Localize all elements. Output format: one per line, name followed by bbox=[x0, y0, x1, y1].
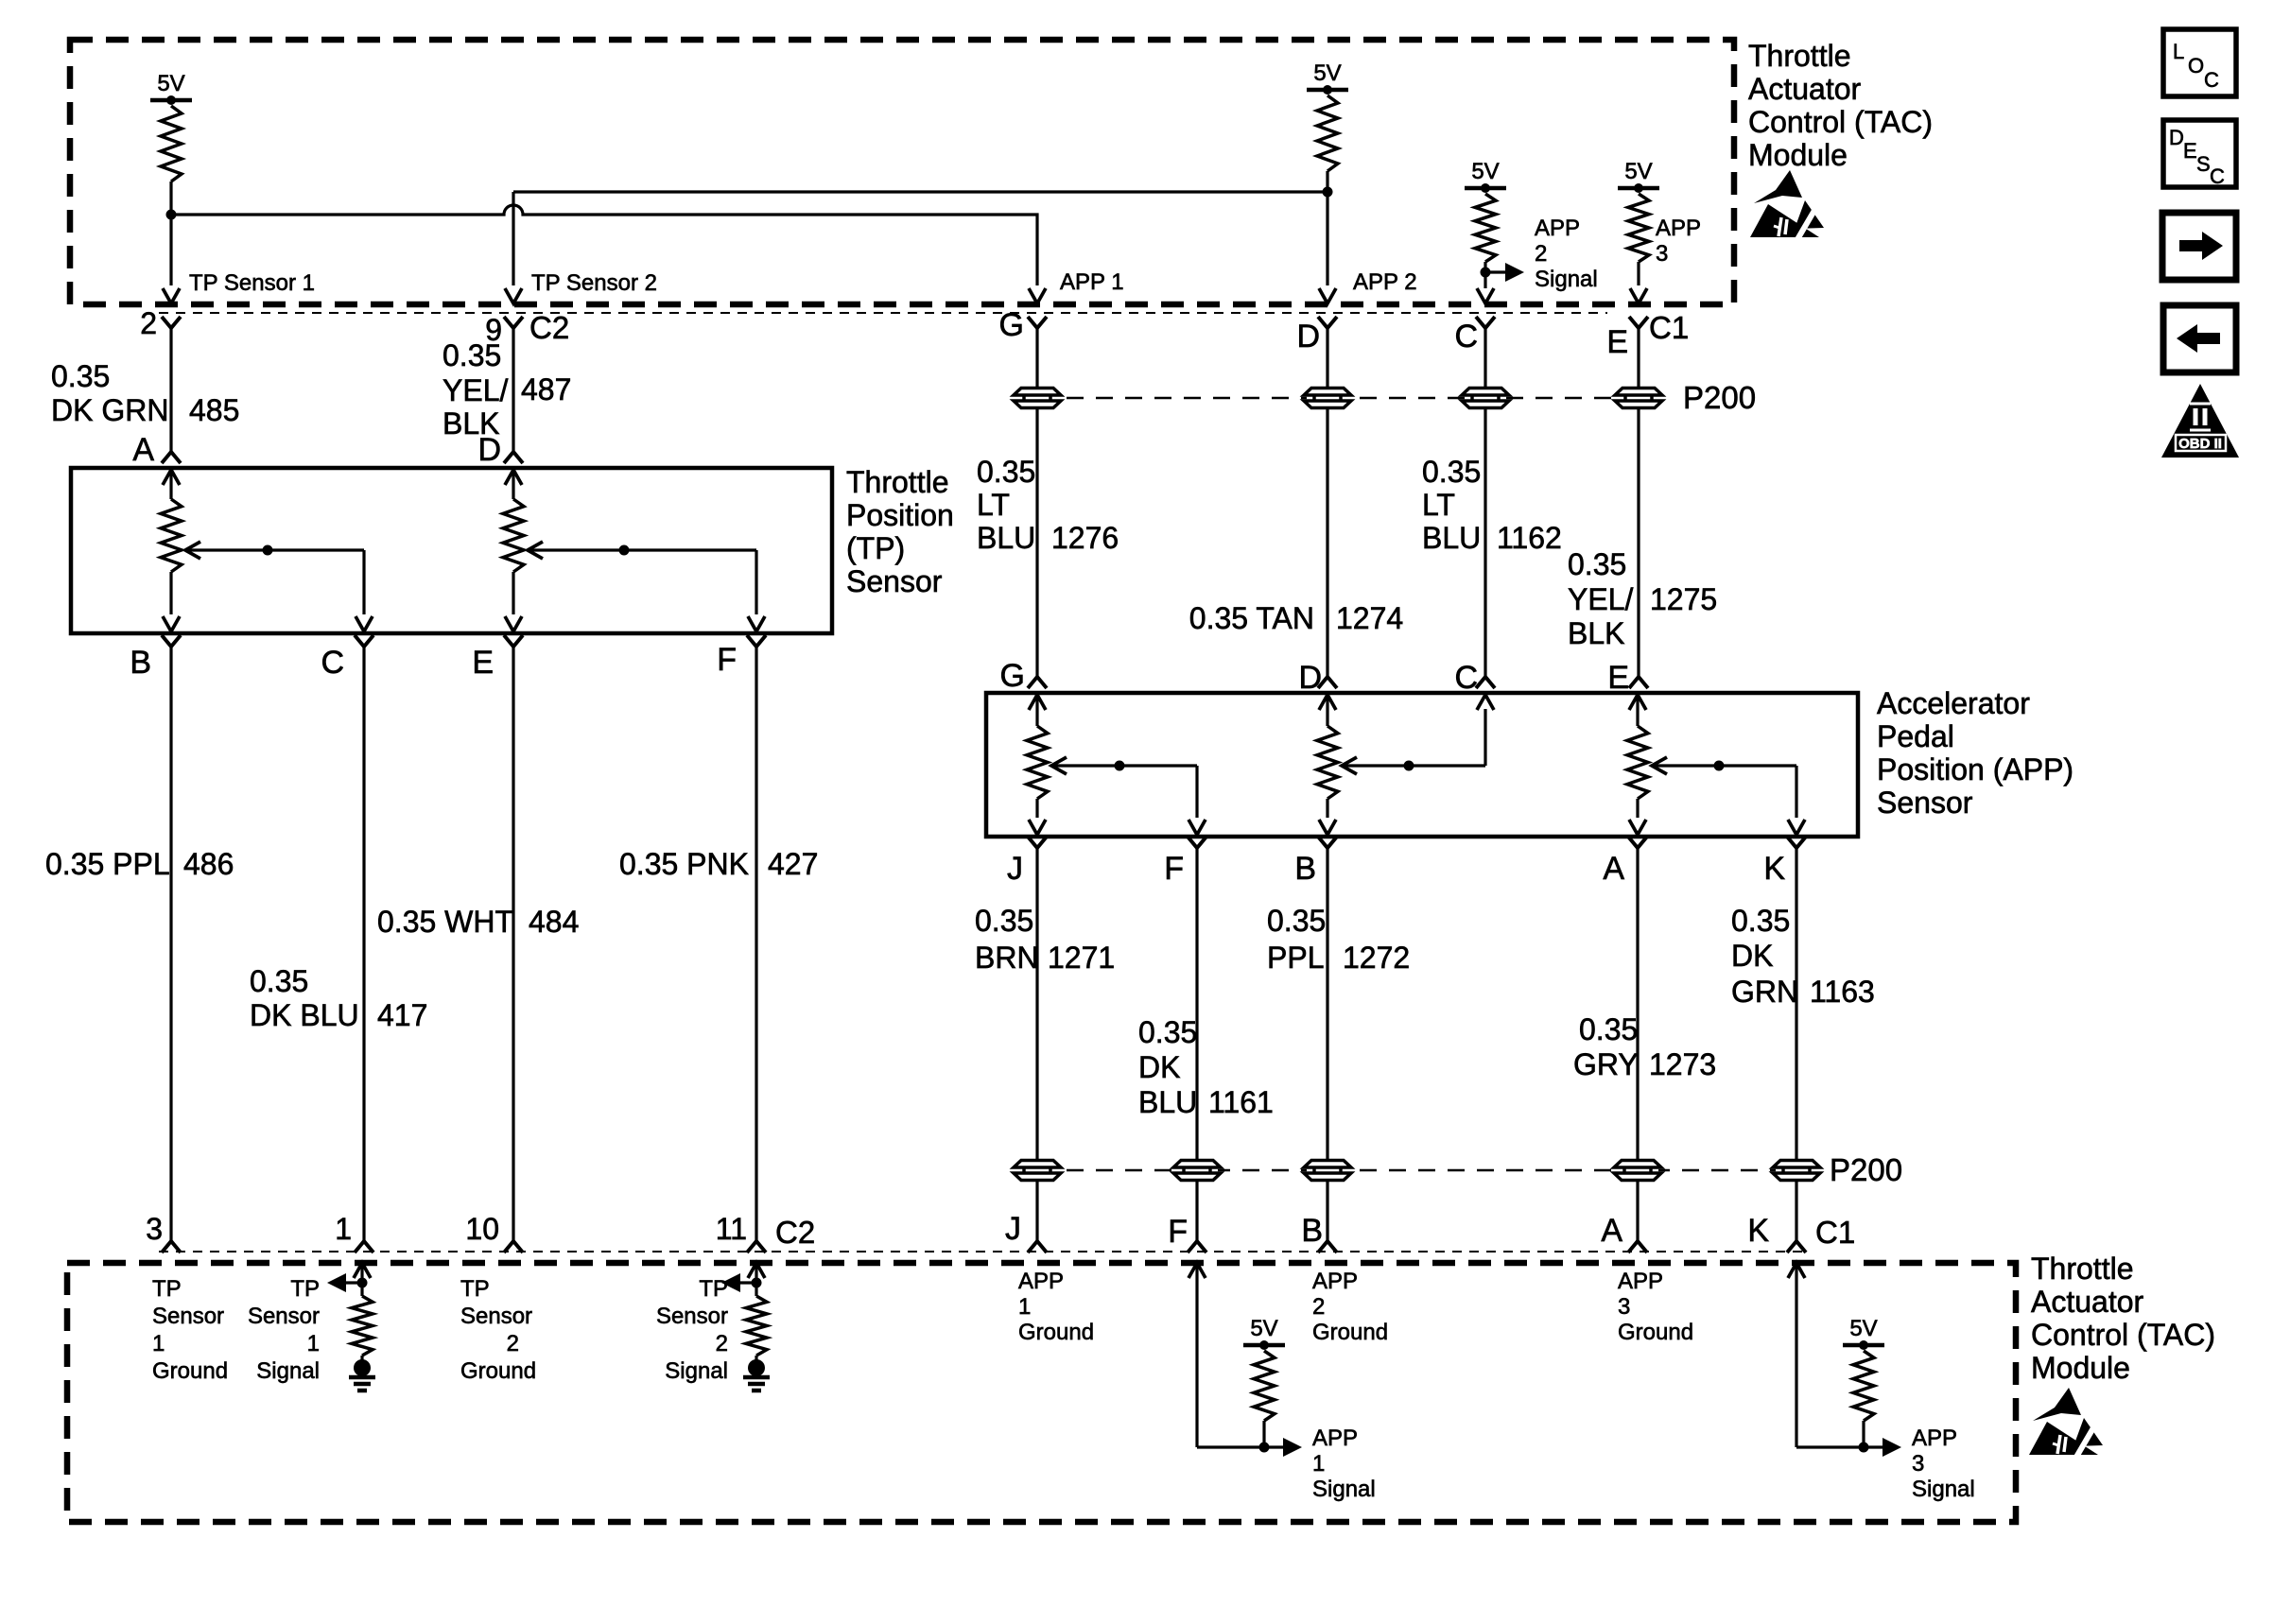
svg-text:2: 2 bbox=[716, 1331, 728, 1356]
svg-text:F: F bbox=[1164, 851, 1184, 887]
svg-text:5V: 5V bbox=[157, 71, 184, 96]
svg-text:3: 3 bbox=[146, 1212, 163, 1246]
svg-text:Ground: Ground bbox=[1312, 1320, 1388, 1345]
svg-text:Throttle: Throttle bbox=[846, 465, 948, 499]
svg-text:K: K bbox=[1763, 851, 1785, 887]
svg-text:DK: DK bbox=[1731, 939, 1773, 973]
svg-text:BLK: BLK bbox=[1568, 616, 1624, 650]
svg-text:11: 11 bbox=[716, 1212, 747, 1246]
svg-text:1272: 1272 bbox=[1343, 941, 1410, 975]
svg-text:0.35: 0.35 bbox=[250, 964, 308, 998]
svg-text:C1: C1 bbox=[1815, 1215, 1855, 1250]
svg-text:2: 2 bbox=[507, 1331, 519, 1356]
svg-text:1: 1 bbox=[307, 1331, 320, 1356]
svg-text:Sensor: Sensor bbox=[1877, 786, 1973, 820]
svg-text:0.35: 0.35 bbox=[1422, 455, 1481, 489]
svg-text:0.35 PNK: 0.35 PNK bbox=[619, 847, 749, 881]
svg-text:PPL: PPL bbox=[1267, 941, 1324, 975]
svg-text:Actuator: Actuator bbox=[2031, 1285, 2144, 1319]
svg-text:0.35 WHT: 0.35 WHT bbox=[377, 905, 513, 939]
svg-text:GRN: GRN bbox=[1731, 975, 1798, 1009]
svg-text:Accelerator: Accelerator bbox=[1877, 686, 2030, 720]
svg-text:1: 1 bbox=[1312, 1451, 1325, 1477]
svg-text:1273: 1273 bbox=[1649, 1047, 1716, 1081]
svg-text:Module: Module bbox=[1748, 138, 1848, 172]
svg-text:APP: APP bbox=[1312, 1425, 1358, 1451]
svg-text:APP: APP bbox=[1912, 1425, 1957, 1451]
svg-text:Module: Module bbox=[2031, 1351, 2130, 1385]
svg-text:0.35: 0.35 bbox=[1138, 1015, 1197, 1049]
svg-text:Sensor: Sensor bbox=[248, 1304, 320, 1329]
svg-text:5V: 5V bbox=[1250, 1316, 1277, 1341]
svg-text:DK GRN: DK GRN bbox=[51, 393, 168, 427]
svg-text:(TP): (TP) bbox=[846, 531, 905, 565]
svg-text:0.35: 0.35 bbox=[1568, 547, 1626, 581]
svg-text:B: B bbox=[1301, 1213, 1323, 1249]
svg-text:P200: P200 bbox=[1830, 1152, 1902, 1187]
svg-text:E: E bbox=[1606, 324, 1628, 360]
svg-text:1275: 1275 bbox=[1650, 582, 1717, 616]
svg-text:1: 1 bbox=[1018, 1294, 1031, 1320]
svg-text:F: F bbox=[717, 642, 737, 678]
svg-text:486: 486 bbox=[183, 847, 234, 881]
svg-text:Ground: Ground bbox=[460, 1358, 536, 1384]
svg-text:J: J bbox=[1005, 1211, 1021, 1247]
svg-text:TP: TP bbox=[699, 1276, 728, 1302]
svg-text:B: B bbox=[1294, 851, 1316, 887]
svg-text:APP 2: APP 2 bbox=[1353, 269, 1417, 295]
svg-text:Actuator: Actuator bbox=[1748, 72, 1862, 106]
svg-text:J: J bbox=[1007, 851, 1023, 887]
svg-text:3: 3 bbox=[1656, 241, 1668, 267]
svg-text:BLU: BLU bbox=[1138, 1085, 1197, 1119]
svg-text:L: L bbox=[2173, 40, 2184, 63]
svg-text:417: 417 bbox=[377, 998, 427, 1032]
svg-text:Sensor: Sensor bbox=[656, 1304, 728, 1329]
svg-text:1: 1 bbox=[335, 1212, 352, 1246]
svg-text:LT: LT bbox=[1422, 488, 1455, 522]
svg-text:A: A bbox=[1603, 851, 1624, 887]
svg-text:Ground: Ground bbox=[152, 1358, 228, 1384]
svg-text:G: G bbox=[1000, 658, 1025, 694]
svg-text:Control (TAC): Control (TAC) bbox=[1748, 105, 1933, 139]
svg-text:APP 1: APP 1 bbox=[1060, 269, 1124, 295]
svg-text:Ground: Ground bbox=[1618, 1320, 1693, 1345]
svg-text:E: E bbox=[472, 645, 494, 681]
svg-text:1276: 1276 bbox=[1051, 521, 1119, 555]
svg-text:C: C bbox=[2210, 164, 2225, 188]
svg-text:YEL/: YEL/ bbox=[442, 373, 508, 407]
svg-text:OBD II: OBD II bbox=[2178, 436, 2222, 452]
svg-text:E: E bbox=[2183, 139, 2197, 163]
svg-text:DK BLU: DK BLU bbox=[250, 998, 359, 1032]
svg-text:C2: C2 bbox=[775, 1215, 815, 1250]
svg-text:A: A bbox=[132, 432, 154, 468]
svg-text:0.35: 0.35 bbox=[977, 455, 1035, 489]
svg-text:GRY: GRY bbox=[1573, 1047, 1639, 1081]
svg-text:S: S bbox=[2196, 152, 2211, 176]
svg-text:2: 2 bbox=[1535, 241, 1547, 267]
svg-text:5V: 5V bbox=[1313, 60, 1341, 86]
svg-text:DK: DK bbox=[1138, 1050, 1180, 1084]
svg-text:1271: 1271 bbox=[1048, 941, 1115, 975]
svg-text:TP: TP bbox=[152, 1276, 182, 1302]
svg-text:1274: 1274 bbox=[1336, 601, 1403, 635]
svg-text:Sensor: Sensor bbox=[152, 1304, 224, 1329]
svg-text:Signal: Signal bbox=[665, 1358, 728, 1384]
svg-text:BRN: BRN bbox=[975, 941, 1039, 975]
svg-text:Position: Position bbox=[846, 498, 954, 532]
svg-text:Sensor: Sensor bbox=[460, 1304, 532, 1329]
svg-text:0.35: 0.35 bbox=[975, 904, 1033, 938]
svg-text:1161: 1161 bbox=[1208, 1085, 1274, 1119]
svg-text:485: 485 bbox=[189, 393, 239, 427]
svg-text:Pedal: Pedal bbox=[1877, 719, 1954, 753]
svg-text:O: O bbox=[2188, 54, 2204, 78]
svg-text:Signal: Signal bbox=[1535, 267, 1598, 292]
svg-text:TP Sensor 2: TP Sensor 2 bbox=[531, 270, 657, 296]
svg-text:Ground: Ground bbox=[1018, 1320, 1094, 1345]
svg-text:0.35: 0.35 bbox=[442, 338, 501, 372]
svg-text:1163: 1163 bbox=[1810, 975, 1875, 1009]
svg-text:D: D bbox=[1298, 660, 1322, 696]
svg-text:0.35: 0.35 bbox=[1267, 904, 1326, 938]
svg-text:P200: P200 bbox=[1683, 380, 1756, 415]
svg-text:YEL/: YEL/ bbox=[1568, 582, 1633, 616]
svg-text:C: C bbox=[1454, 660, 1478, 696]
svg-text:APP: APP bbox=[1656, 216, 1701, 241]
svg-text:APP: APP bbox=[1535, 216, 1580, 241]
svg-text:Signal: Signal bbox=[256, 1358, 320, 1384]
svg-text:C2: C2 bbox=[529, 310, 569, 345]
svg-text:5V: 5V bbox=[1624, 159, 1652, 184]
svg-text:5V: 5V bbox=[1471, 159, 1499, 184]
svg-text:K: K bbox=[1747, 1213, 1769, 1249]
svg-text:Signal: Signal bbox=[1312, 1477, 1376, 1502]
svg-text:3: 3 bbox=[1618, 1294, 1630, 1320]
svg-text:G: G bbox=[999, 307, 1024, 343]
svg-text:APP: APP bbox=[1618, 1269, 1663, 1294]
svg-text:TP Sensor 1: TP Sensor 1 bbox=[189, 270, 315, 296]
svg-text:BLU: BLU bbox=[1422, 521, 1481, 555]
svg-text:Position (APP): Position (APP) bbox=[1877, 752, 2073, 786]
svg-text:427: 427 bbox=[768, 847, 818, 881]
svg-text:Control (TAC): Control (TAC) bbox=[2031, 1318, 2215, 1352]
svg-text:484: 484 bbox=[529, 905, 579, 939]
svg-text:E: E bbox=[1607, 660, 1629, 696]
svg-text:APP: APP bbox=[1312, 1269, 1358, 1294]
svg-text:BLU: BLU bbox=[977, 521, 1035, 555]
svg-text:1162: 1162 bbox=[1497, 521, 1562, 555]
svg-text:10: 10 bbox=[465, 1212, 499, 1246]
svg-text:0.35: 0.35 bbox=[1579, 1012, 1638, 1046]
svg-text:D: D bbox=[2169, 126, 2184, 149]
svg-text:487: 487 bbox=[521, 372, 571, 406]
svg-text:TP: TP bbox=[290, 1276, 320, 1302]
svg-text:C1: C1 bbox=[1649, 310, 1689, 345]
svg-text:3: 3 bbox=[1912, 1451, 1924, 1477]
svg-text:APP: APP bbox=[1018, 1269, 1064, 1294]
svg-text:D: D bbox=[1296, 319, 1320, 354]
svg-text:Sensor: Sensor bbox=[846, 564, 943, 598]
svg-text:Throttle: Throttle bbox=[2031, 1252, 2133, 1286]
svg-text:TP: TP bbox=[460, 1276, 490, 1302]
svg-text:B: B bbox=[130, 645, 151, 681]
svg-text:C: C bbox=[2204, 68, 2219, 92]
svg-text:5V: 5V bbox=[1849, 1316, 1877, 1341]
svg-text:Signal: Signal bbox=[1912, 1477, 1975, 1502]
svg-text:LT: LT bbox=[977, 488, 1010, 522]
svg-text:2: 2 bbox=[140, 306, 157, 340]
svg-text:D: D bbox=[477, 432, 501, 468]
svg-text:0.35 TAN: 0.35 TAN bbox=[1189, 601, 1314, 635]
svg-text:Throttle: Throttle bbox=[1748, 39, 1850, 73]
svg-text:0.35: 0.35 bbox=[51, 359, 110, 393]
svg-text:0.35 PPL: 0.35 PPL bbox=[45, 847, 170, 881]
svg-text:0.35: 0.35 bbox=[1731, 904, 1790, 938]
svg-text:A: A bbox=[1601, 1213, 1622, 1249]
svg-text:1: 1 bbox=[152, 1331, 165, 1356]
svg-text:F: F bbox=[1168, 1214, 1188, 1250]
svg-text:C: C bbox=[321, 645, 344, 681]
svg-text:C: C bbox=[1454, 319, 1478, 354]
svg-text:2: 2 bbox=[1312, 1294, 1325, 1320]
